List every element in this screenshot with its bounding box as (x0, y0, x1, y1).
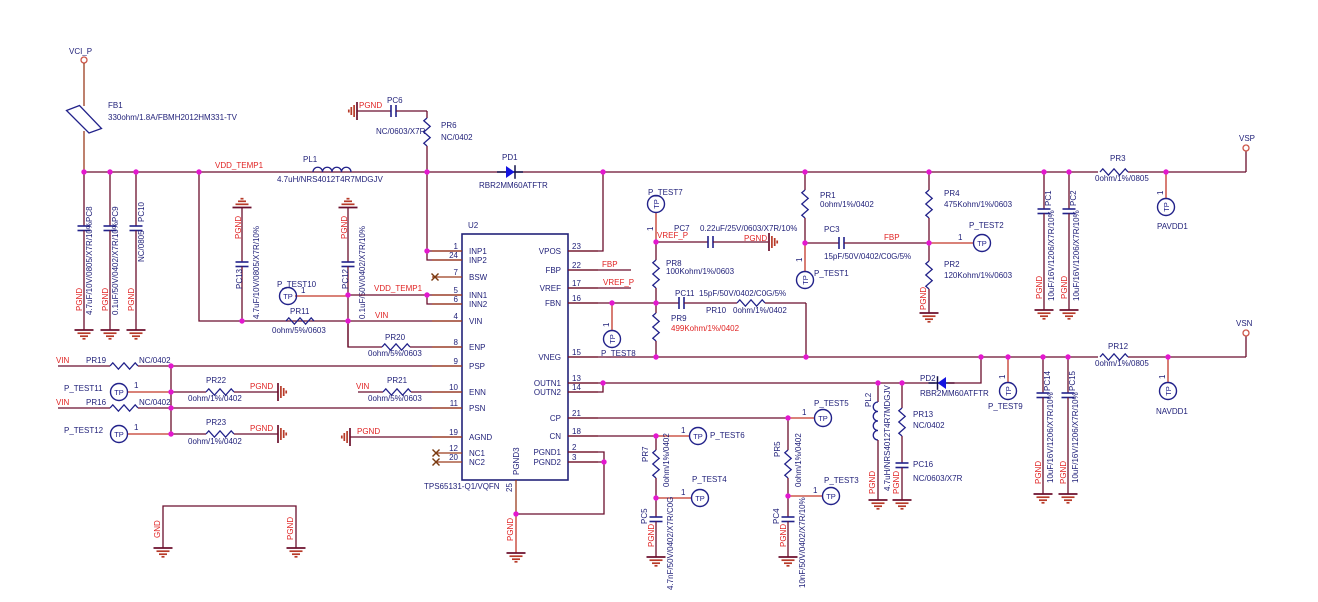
svg-text:RBR2MM60ATFTR: RBR2MM60ATFTR (479, 181, 548, 190)
no-connect X NC1 (433, 450, 440, 457)
ground PR22 (278, 383, 286, 401)
svg-text:P_TEST4: P_TEST4 (692, 475, 727, 484)
svg-text:P_TEST10: P_TEST10 (277, 280, 317, 289)
svg-text:VDD_TEMP1: VDD_TEMP1 (215, 161, 264, 170)
testpoint P_TEST3 (788, 476, 859, 505)
svg-text:OUTN2: OUTN2 (534, 388, 562, 397)
svg-text:PGND: PGND (250, 424, 273, 433)
svg-text:1: 1 (602, 322, 611, 327)
svg-text:4.7uF/10V/0805/X7R/10%: 4.7uF/10V/0805/X7R/10% (85, 222, 94, 315)
svg-text:PGND: PGND (359, 101, 382, 110)
capacitor PC6 (357, 96, 427, 136)
resistor PR7 (641, 433, 671, 498)
svg-text:TP: TP (114, 430, 124, 439)
svg-text:NC/0402: NC/0402 (913, 421, 945, 430)
wire VREF stub (568, 278, 634, 288)
testpoint P_TEST7 (646, 188, 683, 242)
junction at 656,357 (653, 354, 658, 359)
junction at 348,295 (345, 292, 350, 297)
wire OUTN2 jog (568, 383, 603, 392)
svg-text:PGND3: PGND3 (512, 447, 521, 475)
wire VPOS to bus (568, 172, 603, 251)
label VREF_P at PR8 (657, 231, 688, 240)
svg-text:PGND: PGND (506, 518, 515, 541)
resistor PR9 (653, 303, 740, 357)
testpoint P_TEST5 (788, 399, 849, 427)
svg-text:TP: TP (695, 494, 705, 503)
svg-text:0ohm/1%/0402: 0ohm/1%/0402 (188, 437, 242, 446)
capacitor PC5 (640, 497, 675, 590)
junction at 805,243 (802, 240, 807, 245)
svg-text:PSP: PSP (469, 362, 485, 371)
wire VDD_TEMP1 bus (84, 171, 1098, 173)
svg-text:OUTN1: OUTN1 (534, 379, 562, 388)
testpoint P_TEST9 (988, 357, 1023, 411)
svg-text:NC/0603/X7R: NC/0603/X7R (913, 474, 963, 483)
wire PGND3 to ground (506, 514, 516, 553)
junction at 981,357 (978, 354, 983, 359)
svg-text:FBN: FBN (545, 299, 561, 308)
svg-text:TP: TP (608, 334, 617, 344)
capacitor PC4 (772, 496, 807, 588)
svg-text:PGND: PGND (75, 288, 84, 311)
pin 25 PGND3 stub (505, 480, 516, 514)
label VIN PR16 row (56, 398, 70, 407)
svg-text:PC14: PC14 (1043, 370, 1052, 391)
label GND bridge (153, 520, 162, 538)
ferrite bead FB1 (67, 101, 238, 133)
label PGND PR22 (250, 382, 273, 391)
svg-text:PL2: PL2 (864, 392, 873, 407)
svg-text:P_TEST12: P_TEST12 (64, 426, 104, 435)
svg-text:1: 1 (134, 381, 139, 390)
junction at 1168,357 (1165, 354, 1170, 359)
svg-text:PGND: PGND (127, 288, 136, 311)
resistor PR19 (58, 356, 171, 369)
svg-text:NC/0402: NC/0402 (139, 356, 171, 365)
svg-text:FBP: FBP (602, 260, 618, 269)
svg-text:PGND: PGND (892, 471, 901, 494)
svg-text:TP: TP (1164, 386, 1173, 396)
svg-text:PC13: PC13 (235, 268, 244, 289)
wire PR16 to PSN pin (138, 407, 462, 409)
svg-text:PGND: PGND (744, 234, 767, 243)
svg-text:GND: GND (153, 520, 162, 538)
wire VDD_TEMP1 to INN pins (348, 294, 427, 296)
svg-text:0ohm/1%/0402: 0ohm/1%/0402 (188, 394, 242, 403)
svg-text:1: 1 (795, 257, 804, 262)
svg-text:VREF: VREF (540, 284, 561, 293)
capacitor PC16 (892, 460, 963, 500)
svg-text:PGND: PGND (919, 287, 928, 310)
svg-text:PR9: PR9 (671, 314, 687, 323)
svg-text:PC3: PC3 (824, 225, 840, 234)
wire PGND2 stub (568, 461, 604, 463)
svg-text:13: 13 (572, 374, 581, 383)
svg-text:10uF/16V/1206/X7R/10%: 10uF/16V/1206/X7R/10% (1072, 210, 1081, 301)
svg-text:BSW: BSW (469, 273, 488, 282)
svg-text:VREF_P: VREF_P (603, 278, 634, 287)
capacitor PC1 (1035, 172, 1056, 310)
svg-text:TP: TP (826, 492, 836, 501)
label PGND PR23 (250, 424, 273, 433)
pin numbers right (572, 242, 581, 462)
resistor PR21 (358, 376, 422, 403)
svg-text:PGND: PGND (340, 216, 349, 239)
wire INN2 jog (427, 295, 462, 304)
ground PGND bridge right (287, 548, 306, 557)
svg-text:0.1uF/50V/0402/X7R/10%: 0.1uF/50V/0402/X7R/10% (358, 226, 367, 319)
wire INP2 jog (427, 251, 462, 260)
svg-text:TP: TP (1004, 386, 1013, 396)
svg-text:3: 3 (572, 453, 577, 462)
svg-text:TP: TP (977, 239, 987, 248)
svg-text:PC4: PC4 (772, 508, 781, 524)
svg-text:VIN: VIN (375, 311, 389, 320)
junction at 1166,172 (1163, 169, 1168, 174)
junction at 427,251 (424, 248, 429, 253)
ground GND bridge left (154, 548, 173, 557)
ground PC14 (1034, 494, 1053, 503)
svg-text:PL1: PL1 (303, 155, 318, 164)
svg-text:RBR2MM60ATFTR: RBR2MM60ATFTR (920, 389, 989, 398)
svg-text:TP: TP (652, 199, 661, 209)
junction at 929,172 (926, 169, 931, 174)
resistor PR11 (272, 307, 326, 335)
label VDD_TEMP1 at INN (374, 284, 423, 293)
no-connect X NC2 (433, 459, 440, 466)
svg-text:TP: TP (693, 432, 703, 441)
svg-text:475Kohm/1%/0603: 475Kohm/1%/0603 (944, 200, 1013, 209)
junction at 902,383 (899, 380, 904, 385)
ground PC15 (1059, 494, 1078, 503)
svg-text:6: 6 (454, 295, 459, 304)
svg-text:PGND: PGND (1034, 461, 1043, 484)
svg-text:AGND: AGND (469, 433, 492, 442)
capacitor PC8 (75, 172, 94, 330)
junction at 516,514 (513, 511, 518, 516)
svg-text:PR4: PR4 (944, 189, 960, 198)
svg-text:0ohm/1%/0805: 0ohm/1%/0805 (1095, 359, 1149, 368)
svg-text:PC1: PC1 (1044, 190, 1053, 206)
svg-text:VIN: VIN (469, 317, 483, 326)
junction at 1043,357 (1040, 354, 1045, 359)
junction at 788,418 (785, 415, 790, 420)
resistor PR1 (802, 172, 875, 243)
svg-text:INN2: INN2 (469, 300, 488, 309)
svg-text:22: 22 (572, 261, 581, 270)
svg-text:12: 12 (449, 444, 458, 453)
capacitor PC13 (233, 199, 262, 321)
testpoint P_TEST4 (656, 475, 727, 507)
wire VSN drop (1245, 336, 1247, 357)
junction at 348,321 (345, 318, 350, 323)
junction at 1068,357 (1065, 354, 1070, 359)
ground PC8 (75, 330, 94, 339)
svg-text:PR20: PR20 (385, 333, 406, 342)
no-connect X BSW (432, 274, 439, 281)
svg-text:10uF/16V/1206/X7R/10%: 10uF/16V/1206/X7R/10% (1071, 392, 1080, 483)
junction at 110,172 (107, 169, 112, 174)
junction at 612,303 (609, 300, 614, 305)
svg-text:PR22: PR22 (206, 376, 227, 385)
label VIN PR21 row (356, 382, 370, 391)
svg-text:PGND: PGND (779, 524, 788, 547)
svg-text:1: 1 (813, 486, 818, 495)
svg-text:PR10: PR10 (706, 306, 727, 315)
svg-text:PAVDD1: PAVDD1 (1157, 222, 1188, 231)
wire AGND (350, 436, 462, 438)
svg-text:PR12: PR12 (1108, 342, 1129, 351)
svg-text:PGND: PGND (1059, 461, 1068, 484)
wire VSP drop (1245, 151, 1247, 172)
ground PC16 (893, 500, 912, 509)
svg-text:P_TEST2: P_TEST2 (969, 221, 1004, 230)
wire bus drop to VIN row (199, 172, 462, 321)
label PGND AGND row (357, 427, 380, 436)
wire VCI_P to FB1 (83, 63, 85, 106)
svg-text:PC9: PC9 (111, 206, 120, 222)
junction at 427,295 (424, 292, 429, 297)
resistor PR12 (1095, 342, 1149, 368)
svg-text:FB1: FB1 (108, 101, 123, 110)
junction at 1069,172 (1066, 169, 1071, 174)
svg-text:1: 1 (958, 233, 963, 242)
svg-text:0.22uF/25V/0603/X7R/10%: 0.22uF/25V/0603/X7R/10% (700, 224, 797, 233)
svg-text:0ohm/1%/0402: 0ohm/1%/0402 (662, 433, 671, 487)
resistor PR4 (926, 172, 1013, 243)
svg-text:PR6: PR6 (441, 121, 457, 130)
diode PD2 (920, 374, 989, 398)
svg-text:PC10: PC10 (137, 201, 146, 222)
wire PGND1 jog (516, 452, 604, 514)
svg-text:PSN: PSN (469, 404, 486, 413)
svg-text:FBP: FBP (545, 266, 561, 275)
wire CN row (568, 435, 656, 437)
svg-text:1: 1 (134, 423, 139, 432)
svg-text:PGND: PGND (250, 382, 273, 391)
testpoint P_TEST6 (656, 426, 745, 445)
wire FBN row (568, 302, 679, 304)
svg-text:PC7: PC7 (674, 224, 690, 233)
junction at 242,321 (239, 318, 244, 323)
svg-text:P_TEST9: P_TEST9 (988, 402, 1023, 411)
svg-text:TPS65131-Q1/VQFN: TPS65131-Q1/VQFN (424, 482, 500, 491)
testpoint PAVDD1 (1156, 172, 1188, 231)
svg-text:1: 1 (454, 242, 459, 251)
wire VNEG rail right of PR12 (1128, 356, 1246, 358)
label VIN PR19 row (56, 356, 70, 365)
svg-text:PGND: PGND (357, 427, 380, 436)
junction at 878,383 (875, 380, 880, 385)
svg-text:PGND: PGND (234, 216, 243, 239)
svg-text:PD2: PD2 (920, 374, 936, 383)
svg-text:100Kohm/1%/0603: 100Kohm/1%/0603 (666, 267, 735, 276)
svg-text:INP2: INP2 (469, 256, 487, 265)
svg-text:VCI_P: VCI_P (69, 47, 92, 56)
pin numbers left (449, 242, 458, 462)
svg-text:23: 23 (572, 242, 581, 251)
capacitor PC9 (101, 172, 120, 330)
svg-text:10uF/16V/1206/X7R/10%: 10uF/16V/1206/X7R/10% (1047, 210, 1056, 301)
svg-text:PGND2: PGND2 (533, 458, 561, 467)
svg-text:120Kohm/1%/0603: 120Kohm/1%/0603 (944, 271, 1013, 280)
testpoint P_TEST12 (64, 423, 171, 443)
ground PC10 (127, 330, 146, 339)
svg-text:VSN: VSN (1236, 319, 1253, 328)
svg-text:4.7uF/10V/0805/X7R/10%: 4.7uF/10V/0805/X7R/10% (252, 226, 261, 319)
resistor PR6 (424, 111, 473, 172)
svg-text:20: 20 (449, 453, 458, 462)
svg-text:11: 11 (450, 399, 459, 408)
svg-text:PGND: PGND (868, 471, 877, 494)
svg-text:NC2: NC2 (469, 458, 486, 467)
ground PR2 (920, 313, 939, 322)
junction at 656,303 (653, 300, 658, 305)
resistor PR3 (1095, 154, 1149, 183)
junction at 171,366 (168, 363, 173, 368)
junction at 656,242 (653, 239, 658, 244)
svg-text:4.7uH/NRS4012T4R7MDGJV: 4.7uH/NRS4012T4R7MDGJV (277, 175, 383, 184)
ground PC6 (349, 102, 357, 120)
resistor PR8 (653, 242, 735, 303)
svg-text:16: 16 (572, 294, 581, 303)
svg-text:NC/0402: NC/0402 (139, 398, 171, 407)
pin names left (469, 247, 492, 467)
svg-text:CN: CN (549, 432, 561, 441)
junction at 199,172 (196, 169, 201, 174)
svg-text:PR3: PR3 (1110, 154, 1126, 163)
capacitor PC2 (1060, 172, 1081, 310)
svg-text:INP1: INP1 (469, 247, 487, 256)
label VIN pin4 row (375, 311, 389, 320)
wire PR6 to INP junction (426, 172, 428, 251)
svg-text:1: 1 (646, 226, 655, 231)
svg-text:24: 24 (449, 251, 458, 260)
pin names right (533, 247, 561, 467)
ground below chip (507, 553, 526, 562)
label PGND PC7 (744, 234, 767, 243)
svg-text:NC/0402: NC/0402 (441, 133, 473, 142)
junction at 1044,172 (1041, 169, 1046, 174)
ground PC1 (1035, 310, 1054, 319)
svg-text:499Kohm/1%/0402: 499Kohm/1%/0402 (671, 324, 740, 333)
svg-text:4.7nF/50V/0402/X7R/C0G: 4.7nF/50V/0402/X7R/C0G (666, 497, 675, 590)
svg-text:TP: TP (801, 275, 810, 285)
svg-text:VIN: VIN (356, 382, 370, 391)
svg-text:9: 9 (454, 357, 459, 366)
svg-text:PC6: PC6 (387, 96, 403, 105)
IC U2 TPS65131-Q1/VQFN (424, 221, 568, 491)
pin stubs left (432, 251, 462, 462)
resistor PR22 (171, 376, 278, 403)
svg-text:P_TEST11: P_TEST11 (64, 384, 103, 393)
svg-text:1: 1 (802, 408, 807, 417)
svg-text:VNEG: VNEG (538, 353, 561, 362)
wire INN1 stub (427, 294, 462, 296)
svg-text:P_TEST6: P_TEST6 (710, 431, 745, 440)
resistor PR10 (706, 300, 806, 315)
svg-text:PC15: PC15 (1068, 370, 1077, 391)
svg-text:PR5: PR5 (773, 441, 782, 457)
svg-text:VIN: VIN (56, 356, 70, 365)
capacitor PC3 (805, 225, 929, 261)
testpoint NAVDD1 (1156, 357, 1188, 416)
svg-text:1: 1 (1158, 374, 1167, 379)
svg-text:15pF/50V/0402/C0G/5%: 15pF/50V/0402/C0G/5% (699, 289, 786, 298)
junction at 171,408 (168, 405, 173, 410)
resistor PR16 (58, 398, 171, 411)
svg-text:14: 14 (572, 383, 581, 392)
ground PL2 (869, 500, 888, 509)
svg-text:P_TEST1: P_TEST1 (814, 269, 849, 278)
svg-text:PR11: PR11 (290, 307, 310, 316)
svg-text:VSP: VSP (1239, 134, 1255, 143)
junction at 603,172 (600, 169, 605, 174)
junction at 656,436 (653, 433, 658, 438)
svg-text:PGND1: PGND1 (533, 448, 561, 457)
capacitor PC12 (339, 199, 368, 347)
junction at 136,172 (133, 169, 138, 174)
svg-text:PC5: PC5 (640, 508, 649, 524)
svg-text:21: 21 (572, 409, 581, 418)
svg-text:PR7: PR7 (641, 446, 650, 462)
wire bus right of PR3 (1128, 171, 1246, 173)
resistor PR23 (171, 418, 278, 446)
diode PD1 (479, 153, 548, 190)
wire FBP stub (568, 260, 631, 270)
svg-text:PC12: PC12 (341, 268, 350, 289)
svg-text:18: 18 (572, 427, 581, 436)
ground PC7 (769, 233, 777, 251)
wire FB1 to bus (83, 131, 85, 172)
svg-text:15: 15 (572, 348, 581, 357)
svg-text:0ohm/1%/0402: 0ohm/1%/0402 (794, 433, 803, 487)
svg-text:PC8: PC8 (85, 206, 94, 222)
port VCI_P (69, 47, 92, 63)
svg-text:PGND: PGND (1060, 276, 1069, 299)
svg-text:VIN: VIN (56, 398, 70, 407)
junction at 427,172 (424, 169, 429, 174)
svg-text:P_TEST5: P_TEST5 (814, 399, 849, 408)
svg-text:VDD_TEMP1: VDD_TEMP1 (374, 284, 423, 293)
capacitor PC7 (656, 224, 797, 248)
svg-text:TP: TP (283, 292, 293, 301)
svg-text:VPOS: VPOS (539, 247, 561, 256)
svg-text:0ohm/5%/0603: 0ohm/5%/0603 (368, 349, 422, 358)
svg-text:1: 1 (681, 426, 686, 435)
svg-text:TP: TP (818, 414, 828, 423)
svg-text:PR16: PR16 (86, 398, 107, 407)
svg-text:PR13: PR13 (913, 410, 934, 419)
svg-text:0ohm/5%/0603: 0ohm/5%/0603 (272, 326, 326, 335)
junction at 788,496 (785, 493, 790, 498)
svg-text:TP: TP (1162, 202, 1171, 212)
svg-text:PD1: PD1 (502, 153, 518, 162)
inductor PL2 (864, 383, 892, 500)
junction at 84,172 (81, 169, 86, 174)
port VSN (1236, 319, 1253, 336)
capacitor PC15 (1059, 357, 1080, 494)
wire GND bridge (163, 506, 296, 548)
wire PR20 to ENP pin (410, 346, 462, 348)
ground PR23 (278, 425, 286, 443)
junction at 604,462 (601, 459, 606, 464)
wire PR21 to ENN pin (411, 391, 462, 393)
svg-text:P_TEST7: P_TEST7 (648, 188, 683, 197)
resistor PR5 (773, 418, 803, 496)
svg-text:ENN: ENN (469, 388, 486, 397)
